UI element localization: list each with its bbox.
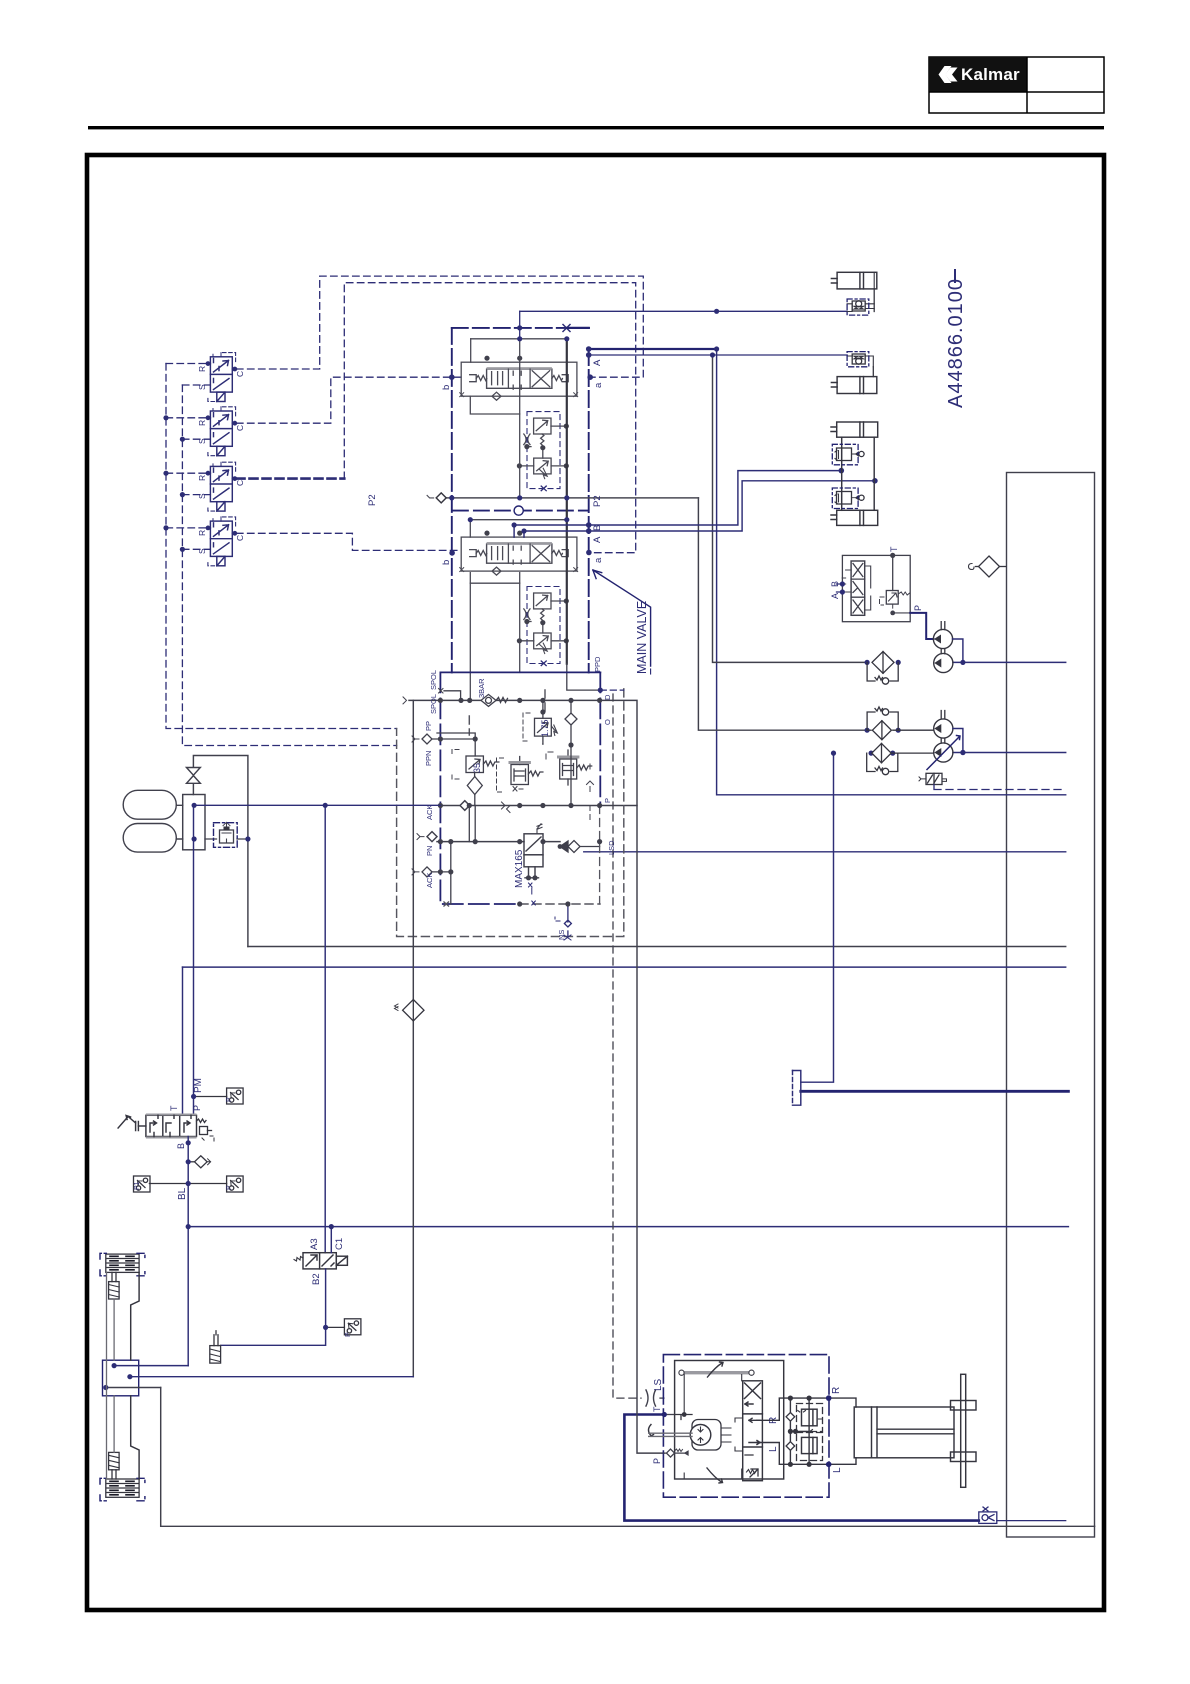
- waiting spring symbol: [210, 1331, 221, 1363]
- cluster internal verticals: [451, 745, 600, 904]
- wire P2 continuation down to pump filter row: [698, 498, 867, 730]
- svg-text:S: S: [197, 493, 207, 499]
- cluster labels rotated: [424, 656, 616, 940]
- pressure reducing valve center: [497, 757, 543, 793]
- svg-text:PP: PP: [424, 721, 433, 731]
- svg-text:R: R: [197, 366, 207, 372]
- support cylinder pair bottom: [831, 510, 878, 525]
- svg-text:P1: P1: [134, 1181, 141, 1190]
- steering outer navy box: [663, 1355, 829, 1498]
- svg-text:LS: LS: [653, 1378, 664, 1391]
- svg-text:B: B: [592, 525, 603, 531]
- pump 2: [934, 653, 953, 672]
- inlet pressure compensator cluster: [397, 656, 664, 1453]
- pilot dashed network: [163, 276, 643, 745]
- right side cylinders and lock valves: [831, 272, 878, 525]
- LS T P port labels: [652, 1378, 843, 1473]
- P line gray: [440, 801, 599, 813]
- PM takeoff: [191, 1088, 243, 1104]
- return filter top: [969, 556, 1007, 577]
- wire long navy down from A-line to corner and into tank: [717, 349, 1066, 795]
- svg-text:MAIN VALVE: MAIN VALVE: [635, 601, 649, 674]
- check valve takeoff: [188, 1156, 210, 1168]
- header logo table: [929, 57, 1104, 113]
- brake area labels: [134, 1078, 233, 1200]
- wire cluster P port to steering feed line: [600, 805, 637, 807]
- svg-text:P: P: [226, 1097, 233, 1102]
- wire thin navy jog above section1: [519, 311, 521, 339]
- support cylinder pair top: [831, 422, 878, 437]
- NS port: [555, 904, 571, 940]
- svg-text:P: P: [603, 798, 612, 803]
- wire steering T thick navy to tank line: [624, 1415, 978, 1521]
- svg-text:C: C: [235, 480, 245, 486]
- pump 4 variable: [934, 743, 953, 762]
- 35 relief box: [452, 750, 499, 806]
- Kalmar logo black cell: [929, 57, 1027, 92]
- lock valve 3: [835, 448, 864, 461]
- lock valve 2: [847, 354, 873, 377]
- Kalmar chevron: [939, 66, 961, 83]
- gerotor metering unit: [692, 1420, 721, 1451]
- wire line to lock valve 2: [589, 354, 847, 356]
- svg-text:Kalmar: Kalmar: [961, 65, 1020, 84]
- wire LSD line to tank: [584, 851, 1066, 853]
- pump 1: [933, 629, 952, 648]
- wire pilot chain Y1 to a1: [237, 276, 644, 377]
- port labels rotated: [367, 359, 604, 565]
- wire A output section1 thick navy: [567, 328, 717, 349]
- tank reservoir rectangle right side: [1007, 473, 1095, 1538]
- svg-text:P: P: [913, 605, 923, 611]
- svg-text:BL: BL: [177, 1187, 188, 1200]
- svg-text:b: b: [441, 560, 452, 565]
- wire pump2 suction to tank: [953, 661, 1066, 663]
- pump and fan valve group: [830, 546, 1066, 790]
- wire accumulator P line navy: [194, 804, 440, 806]
- filter 1: [872, 652, 894, 674]
- solenoid valve Y3: [206, 462, 238, 511]
- filter on drain line: [395, 1000, 425, 1021]
- svg-text:PPN: PPN: [424, 751, 433, 766]
- filter 2: [872, 721, 933, 740]
- steering spool: [743, 1381, 763, 1481]
- wire LS dashed black: [613, 694, 641, 1398]
- svg-text:R: R: [197, 530, 207, 536]
- section1 loop left: [470, 396, 519, 414]
- centering bar: [681, 1371, 753, 1374]
- wire from filter row down to bracket: [801, 753, 834, 1082]
- svg-text:R: R: [197, 420, 207, 426]
- check valve top right of cluster: [543, 700, 577, 769]
- bypass check 2 above: [867, 707, 898, 730]
- wire pump4 line to tank: [953, 752, 1066, 754]
- check valve bottom right: [979, 1507, 1066, 1523]
- R output: [757, 1398, 856, 1464]
- svg-text:A3: A3: [309, 1238, 320, 1250]
- svg-text:T: T: [169, 1105, 179, 1111]
- svg-text:C: C: [235, 371, 245, 377]
- manifold block: [183, 795, 205, 850]
- accumulator 1: [123, 790, 176, 819]
- brake cylinder bottom: [106, 1479, 139, 1497]
- svg-text:O: O: [603, 719, 612, 725]
- wire R-bus dashed vertical: [166, 364, 397, 729]
- LSD check: [560, 841, 600, 853]
- wire T line up to return: [182, 967, 184, 1115]
- svg-text:C: C: [235, 425, 245, 431]
- PP port diamond and line: [412, 733, 475, 756]
- svg-text:a: a: [593, 382, 604, 388]
- cluster outer dashed gray boundary: [397, 689, 624, 937]
- accumulator group: [123, 756, 440, 1253]
- svg-text:P: P: [345, 1332, 352, 1337]
- wire brake line long horizontal: [188, 1226, 1068, 1228]
- cluster junction dots: [438, 698, 602, 907]
- spring stack top: [109, 1272, 120, 1299]
- section2 outputs B and A: [514, 471, 875, 537]
- valve port labels: [197, 366, 245, 554]
- x glyph on top boundary: [563, 325, 570, 332]
- 1.75 pilot relief: [523, 712, 557, 744]
- fan relief: [880, 555, 911, 613]
- section2 top gray wiring: [470, 520, 566, 701]
- wire to BL: [114, 1365, 188, 1367]
- wire navy supply line to tank: [183, 966, 1066, 968]
- svg-text:PPD: PPD: [593, 656, 602, 672]
- curved arrows: [649, 1362, 724, 1483]
- svg-text:1.75: 1.75: [540, 719, 550, 737]
- svg-text:35: 35: [472, 763, 482, 773]
- vent valve: [187, 756, 248, 947]
- brake valve group: [118, 805, 243, 1365]
- long distribution lines: [100, 270, 1095, 1526]
- wire navy down to B2 valve: [324, 805, 326, 1252]
- svg-text:R: R: [197, 475, 207, 481]
- wire thick dark vertical through sections: [566, 339, 568, 664]
- svg-text:C: C: [235, 535, 245, 541]
- PPD port stub: [600, 689, 624, 691]
- steering inner housing: [675, 1361, 784, 1480]
- svg-text:B2: B2: [311, 1273, 322, 1285]
- svg-text:3BAR: 3BAR: [477, 678, 486, 698]
- svg-text:R: R: [831, 1387, 842, 1394]
- stepped dark line: [131, 1272, 139, 1479]
- junction dots pilot bus: [163, 415, 185, 552]
- fan control valve block: [842, 555, 910, 621]
- junction block and service cylinders bottom left: [100, 1253, 413, 1501]
- main valve section 1 (lift): [460, 356, 578, 491]
- B port down: [187, 1137, 189, 1366]
- ACK port 2: [412, 867, 451, 877]
- charge regulator: [205, 822, 248, 843]
- svg-text:B: B: [830, 581, 840, 587]
- lock valve 1: [847, 289, 874, 312]
- pump 3: [934, 719, 953, 738]
- svg-text:A: A: [592, 536, 603, 543]
- svg-text:P2: P2: [367, 494, 378, 506]
- B2 labels: [309, 1238, 352, 1337]
- svg-text:B: B: [176, 1143, 186, 1149]
- long rod lines connecting cylinders: [107, 1272, 115, 1479]
- wire pilot chain Y2 to b1: [237, 377, 462, 423]
- LS orifice symbol: [646, 1390, 656, 1406]
- svg-text:C1: C1: [334, 1238, 345, 1250]
- svg-text:T: T: [652, 1406, 662, 1412]
- wire pump1 to junction: [953, 639, 963, 662]
- shock relief box R: [798, 1409, 823, 1453]
- 3BAR check valve: [403, 694, 664, 1453]
- right compensator valve: [546, 750, 594, 792]
- svg-text:MAX165: MAX165: [514, 849, 525, 888]
- wire gray to bottom rail: [106, 1387, 161, 1389]
- wire from SPOL x elbow: [439, 689, 444, 694]
- svg-text:P: P: [192, 1105, 202, 1111]
- wire thick return from bracket to tank: [801, 1090, 1069, 1093]
- MAIN VALVE callout: [593, 570, 651, 677]
- brake cylinder top: [106, 1254, 139, 1272]
- solenoid valve Y4: [206, 517, 238, 566]
- B2 pilot valve: [186, 1224, 361, 1363]
- inner wiring: [675, 1374, 743, 1479]
- BL branch boxes: [134, 1176, 244, 1192]
- brake valve body: [146, 1114, 197, 1139]
- svg-text:a: a: [593, 557, 604, 563]
- wire gray return line to tank: [248, 946, 1066, 948]
- solenoid valve group left column: [197, 353, 245, 566]
- circle on P2 dashed boundary: [514, 506, 523, 515]
- wire pilot chain Y4 to b2: [237, 533, 462, 550]
- steering unit: [649, 1355, 977, 1498]
- lock valve 4: [835, 492, 864, 505]
- wire R stubs: [166, 364, 208, 528]
- P2 port diamond: [436, 493, 446, 503]
- svg-text:P2: P2: [592, 495, 603, 507]
- svg-text:L: L: [832, 1467, 843, 1473]
- steering wheel / axle: [951, 1374, 977, 1487]
- svg-text:PN: PN: [425, 846, 434, 856]
- cooler solenoid small: [919, 773, 947, 784]
- wire pilot chain Y3 thick segment: [237, 477, 345, 480]
- bypass check 3 below: [867, 753, 898, 775]
- wire suction branch from tilt line down to filter1 row: [713, 355, 868, 662]
- wire pilot chain Y3 to a2: [344, 283, 635, 553]
- wire long navy to steering area: [130, 1376, 413, 1378]
- wire P to pump1: [910, 613, 933, 639]
- svg-text:SPOL: SPOL: [429, 694, 438, 714]
- port dots and labels: [449, 309, 878, 556]
- drawing number: [945, 270, 967, 408]
- connecting verticals: [842, 437, 875, 510]
- junction dots on long lines: [710, 352, 966, 755]
- svg-text:LSD: LSD: [607, 840, 616, 855]
- steering cylinder: [854, 1407, 954, 1458]
- spring right: [197, 1119, 215, 1141]
- connector bracket: [793, 1071, 801, 1106]
- fan block labels: [830, 546, 923, 611]
- anti-cavitation diamonds: [786, 1413, 795, 1451]
- MAX165 pressure limiter: [417, 824, 560, 905]
- solenoid valve Y2: [206, 407, 238, 456]
- spring stack bottom: [109, 1452, 120, 1479]
- main valve section 2 (tilt): [460, 531, 578, 666]
- svg-text:A44866.0100: A44866.0100: [945, 278, 967, 408]
- svg-text:PM: PM: [193, 1078, 204, 1093]
- wire S-bus dashed vertical: [182, 385, 396, 746]
- tilt cylinder 2: [831, 377, 876, 394]
- filter 3: [872, 743, 934, 762]
- steering column shaft: [649, 1433, 692, 1436]
- wire S stubs: [182, 385, 210, 549]
- main valve assembly: [367, 309, 878, 701]
- wire B2 output down: [221, 1269, 326, 1345]
- bypass check 1: [867, 662, 898, 684]
- main valve boundary dash-dot navy: [452, 328, 589, 673]
- svg-text:L: L: [768, 1446, 779, 1452]
- svg-text:SPOL: SPOL: [429, 670, 438, 690]
- wire pump3 to junction: [953, 729, 963, 753]
- accumulator 2: [123, 824, 176, 853]
- svg-text:ACK: ACK: [425, 805, 434, 820]
- dots: [682, 1396, 812, 1467]
- svg-text:A: A: [830, 593, 840, 599]
- section1 top wiring: [471, 339, 567, 673]
- cluster navy boundary: [440, 672, 600, 904]
- solenoid valve Y1: [206, 353, 238, 402]
- svg-text:P: P: [652, 1458, 662, 1464]
- pedal actuator: [118, 1116, 146, 1131]
- P entry check: [664, 1449, 688, 1457]
- svg-text:A: A: [592, 359, 603, 366]
- wire C1 down from long line: [330, 1227, 332, 1253]
- svg-text:D: D: [603, 694, 612, 700]
- svg-text:NS: NS: [557, 930, 566, 940]
- wire P line from accumulator manifold: [193, 805, 195, 1115]
- wire bottom gray long line: [161, 1388, 1095, 1527]
- P2 line: [427, 495, 698, 498]
- svg-text:ACK: ACK: [425, 873, 434, 888]
- B A port dots: [840, 581, 845, 594]
- tilt cylinder 1: [831, 272, 876, 289]
- svg-text:b: b: [441, 385, 452, 390]
- svg-text:P: P: [226, 1185, 233, 1190]
- T entry junction: [663, 1414, 674, 1416]
- svg-text:T: T: [889, 546, 899, 552]
- wire lock line to lock valve 1: [717, 310, 848, 312]
